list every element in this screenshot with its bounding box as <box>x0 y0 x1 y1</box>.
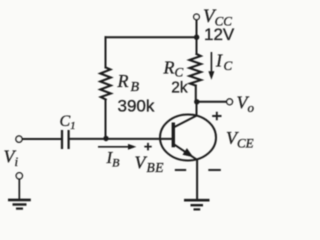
svg-text:12V: 12V <box>204 25 235 44</box>
arrow IC <box>208 52 214 80</box>
wire input from Vi to C1 <box>22 138 61 140</box>
wire top horizontal <box>106 36 197 38</box>
capacitor C1 <box>62 130 69 149</box>
wire emitter to ground <box>196 160 198 199</box>
plus sign collector <box>212 112 221 121</box>
resistor RB <box>100 68 111 100</box>
wire RB bottom lead <box>105 100 107 139</box>
terminal Vi <box>16 136 22 142</box>
terminal Vo <box>227 99 233 105</box>
wire Vcc stem <box>196 20 198 54</box>
wire to Vo terminal <box>197 101 227 103</box>
wire RB top lead <box>105 37 107 67</box>
minus sign VCE <box>208 169 221 171</box>
resistor RC <box>190 54 202 86</box>
junction dot at Vcc <box>194 35 199 40</box>
terminal input ground <box>16 173 22 179</box>
junction dot base node <box>103 136 108 141</box>
plus sign base <box>144 143 151 151</box>
svg-text:390k: 390k <box>118 97 155 116</box>
wire collector lead <box>196 102 198 115</box>
arrow IB <box>98 144 136 150</box>
transistor emitter arrowhead <box>183 148 194 157</box>
junction dot collector node <box>194 99 199 104</box>
transistor Q1 <box>160 115 216 161</box>
ground emitter <box>184 200 210 209</box>
minus sign VBE <box>175 169 186 171</box>
svg-text:2k: 2k <box>171 80 188 97</box>
terminal Vcc <box>194 14 200 20</box>
wire RC bottom lead <box>195 86 197 102</box>
ground left <box>8 179 31 209</box>
wire C1 to base <box>70 138 173 140</box>
